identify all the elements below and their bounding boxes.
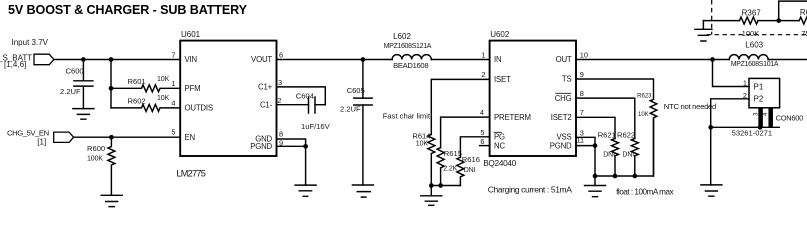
svg-text:OUTDIS: OUTDIS <box>185 104 213 113</box>
node VIN-C600 junction <box>81 57 86 62</box>
svg-text:VSS: VSS <box>556 133 571 142</box>
wire up from junction <box>779 1 807 21</box>
svg-text:U601: U601 <box>181 30 201 39</box>
wire P1 <box>713 60 750 87</box>
wire ISET2 to R621 <box>576 117 615 138</box>
svg-text:VOUT: VOUT <box>251 55 272 64</box>
resistor R614 10K <box>412 131 434 185</box>
ground (R600) <box>101 195 122 206</box>
connector CON600 53261-0271 <box>732 78 804 137</box>
svg-text:EN: EN <box>185 133 195 142</box>
node R622 bottom junction <box>632 174 637 179</box>
svg-text:1: 1 <box>481 50 485 59</box>
resistor R622 DNI <box>617 130 638 176</box>
svg-text:PG: PG <box>494 133 505 142</box>
svg-text:6: 6 <box>480 137 484 146</box>
wire BQ bottom rail <box>595 119 654 176</box>
wire GND/PGND U601 <box>277 129 308 185</box>
svg-text:R622: R622 <box>617 130 635 139</box>
wire PRETERM to R615 <box>441 117 490 148</box>
wire mount rail <box>711 126 780 128</box>
resistor R623 10K <box>637 93 657 176</box>
node rail-gnd junction <box>593 174 598 179</box>
svg-text:MPZ1608S101A: MPZ1608S101A <box>731 61 779 68</box>
resistor R600 100K <box>87 137 115 195</box>
connector J2 CHG_5V_EN <box>7 129 74 147</box>
svg-text:OUT: OUT <box>556 55 572 64</box>
svg-text:R602: R602 <box>128 96 146 105</box>
wire R601/R602 branch <box>110 60 112 108</box>
svg-text:L603: L603 <box>745 40 763 49</box>
ground (C600) <box>73 109 94 120</box>
wire VIN rail <box>54 59 180 61</box>
capacitor C604 (flying cap C1+/C1-) <box>277 78 331 131</box>
svg-text:DNI: DNI <box>464 167 476 174</box>
svg-text:MPZ1608S121A: MPZ1608S121A <box>384 43 432 50</box>
svg-text:4: 4 <box>171 98 175 107</box>
chip U602 BQ24040 <box>483 30 576 168</box>
svg-text:DNI: DNI <box>603 152 615 159</box>
wire CHG to R622 <box>576 98 635 138</box>
resistor R616 DNI <box>457 155 480 186</box>
node P2-gnd junction <box>708 125 713 130</box>
wire resistor-bottom rail <box>431 185 460 187</box>
wire TS to R623 <box>576 79 654 99</box>
svg-text:PGND: PGND <box>250 142 272 151</box>
svg-text:11: 11 <box>577 136 585 145</box>
node R621 bottom junction <box>613 174 618 179</box>
svg-text:2.2K: 2.2K <box>443 166 457 173</box>
mounting pin 4 <box>768 108 773 128</box>
svg-text:9: 9 <box>580 70 584 79</box>
wire L603 to edge <box>768 59 807 61</box>
wire OUT rail <box>576 59 729 61</box>
op-amp U601 LM2775 <box>176 30 276 178</box>
svg-text:C1+: C1+ <box>258 83 273 92</box>
svg-text:PGND: PGND <box>550 141 572 150</box>
ground (top right) <box>695 21 712 41</box>
svg-text:10K: 10K <box>416 140 429 147</box>
svg-text:NTC not needed: NTC not needed <box>664 102 716 111</box>
svg-text:53261-0271: 53261-0271 <box>732 129 773 138</box>
svg-text:R623: R623 <box>637 93 652 99</box>
svg-text:LM2775: LM2775 <box>176 169 205 179</box>
ground (U601) <box>295 185 316 196</box>
svg-text:BQ24040: BQ24040 <box>483 159 517 168</box>
svg-text:5: 5 <box>480 128 484 137</box>
svg-text:8: 8 <box>279 129 283 138</box>
svg-text:TS: TS <box>562 75 572 84</box>
svg-text:4: 4 <box>480 108 484 117</box>
resistor R615 2.2K <box>437 148 462 186</box>
node VIN-R601 junction <box>109 57 114 62</box>
svg-text:C604: C604 <box>296 92 314 101</box>
svg-text:R367: R367 <box>742 8 762 17</box>
node OUT-P1 junction <box>710 57 715 62</box>
resistor R601 10K <box>111 76 180 92</box>
wire VOUT rail <box>277 59 393 61</box>
resistor R367 100K <box>740 8 762 38</box>
svg-text:Fast char limit: Fast char limit <box>383 111 431 120</box>
svg-text:R601: R601 <box>128 77 146 86</box>
svg-text:3: 3 <box>278 78 282 87</box>
wire L602 to U602 <box>431 59 489 61</box>
svg-text:R615: R615 <box>444 149 462 158</box>
wire VSS to PGND <box>576 137 595 145</box>
svg-text:float : 100mA max: float : 100mA max <box>616 188 673 197</box>
svg-text:[1]: [1] <box>37 138 46 147</box>
resistor R621 DNI <box>598 130 619 176</box>
svg-text:1: 1 <box>171 79 175 88</box>
svg-text:CON600: CON600 <box>776 114 804 123</box>
svg-text:R600: R600 <box>87 144 105 153</box>
wire PGND row <box>576 146 595 176</box>
svg-text:2: 2 <box>481 70 485 79</box>
svg-text:100K: 100K <box>87 156 103 163</box>
svg-text:NC: NC <box>494 141 505 150</box>
dashed DNI boundary vertical <box>711 0 713 35</box>
svg-text:7: 7 <box>171 50 175 59</box>
ground (C605) <box>352 185 373 197</box>
svg-text:C1-: C1- <box>260 100 273 109</box>
capacitor C605 <box>340 60 372 186</box>
svg-text:10K: 10K <box>157 76 170 83</box>
wire ISET to R614 <box>431 79 489 134</box>
wire EN <box>74 136 181 138</box>
svg-text:1uF/16V: 1uF/16V <box>301 122 331 131</box>
wire P2 <box>711 99 749 128</box>
svg-text:IN: IN <box>494 55 501 64</box>
svg-text:ISET2: ISET2 <box>551 113 572 122</box>
svg-text:DNI: DNI <box>622 152 634 159</box>
resistor R602 10K <box>111 95 180 111</box>
svg-text:VIN: VIN <box>185 55 197 64</box>
svg-text:100K: 100K <box>742 29 760 38</box>
mounting pin 3 <box>758 108 763 128</box>
svg-text:2.2UF: 2.2UF <box>340 105 361 114</box>
node mount junction <box>758 125 763 130</box>
svg-text:PRETERM: PRETERM <box>494 113 531 122</box>
svg-text:PFM: PFM <box>185 84 201 93</box>
node R367 junction <box>776 18 781 23</box>
svg-text:5V BOOST & CHARGER - SUB BATT: 5V BOOST & CHARGER - SUB BATTERY <box>8 3 248 17</box>
svg-text:C605: C605 <box>347 86 365 95</box>
svg-text:8: 8 <box>580 89 584 98</box>
wire NC stub <box>480 145 490 147</box>
inductor L603 MPZ1608S101A <box>729 40 779 68</box>
node VSS/PGND junction <box>593 143 598 148</box>
svg-text:CHG_5V_EN: CHG_5V_EN <box>7 129 49 138</box>
svg-text:Charging current : 51mA: Charging current : 51mA <box>488 185 573 195</box>
svg-text:10: 10 <box>580 50 588 59</box>
svg-text:Input 3.7V: Input 3.7V <box>12 38 49 47</box>
svg-text:10K: 10K <box>638 112 649 118</box>
svg-text:75: 75 <box>801 29 807 38</box>
svg-text:P1: P1 <box>754 82 764 91</box>
connector J1 _S_BATT <box>0 38 54 69</box>
node VOUT-C605 junction <box>361 57 366 62</box>
resistor R6xx partial <box>799 8 807 38</box>
svg-text:BEAD1608: BEAD1608 <box>393 61 428 70</box>
svg-text:R616: R616 <box>462 155 480 164</box>
svg-text:L602: L602 <box>393 32 411 41</box>
wire PG to R616 <box>460 137 489 157</box>
wire top-right <box>703 20 739 22</box>
svg-text:R6: R6 <box>800 8 807 17</box>
svg-text:5: 5 <box>171 128 175 137</box>
svg-text:10K: 10K <box>157 95 170 102</box>
svg-text:6: 6 <box>279 50 283 59</box>
svg-text:2: 2 <box>277 96 281 105</box>
node EN-R600 junction <box>109 135 114 140</box>
ground (BQ24040) <box>585 176 606 197</box>
svg-text:2.2UF: 2.2UF <box>60 87 81 96</box>
svg-text:U602: U602 <box>490 30 510 39</box>
node R601 junction <box>109 86 114 91</box>
wire R367 to R6xx <box>758 20 799 22</box>
capacitor C600 <box>60 60 93 109</box>
svg-text:CHG: CHG <box>555 94 572 103</box>
inductor L602 MPZ1608S121A <box>384 32 432 70</box>
svg-text:P2: P2 <box>754 95 764 104</box>
ground (R614 rail) <box>421 186 442 206</box>
dashed DNI boundary horizontal <box>707 34 807 36</box>
node R614 rail junction <box>429 183 434 188</box>
svg-text:R614: R614 <box>412 131 430 140</box>
svg-text:4: 4 <box>763 112 769 116</box>
node R615 rail junction <box>438 183 443 188</box>
svg-text:7: 7 <box>580 108 584 117</box>
svg-text:[1,4,6]: [1,4,6] <box>4 60 26 69</box>
svg-text:C600: C600 <box>66 66 84 75</box>
svg-text:R621: R621 <box>598 130 616 139</box>
svg-text:ISET: ISET <box>494 75 511 84</box>
ground (CON600) <box>701 127 722 196</box>
